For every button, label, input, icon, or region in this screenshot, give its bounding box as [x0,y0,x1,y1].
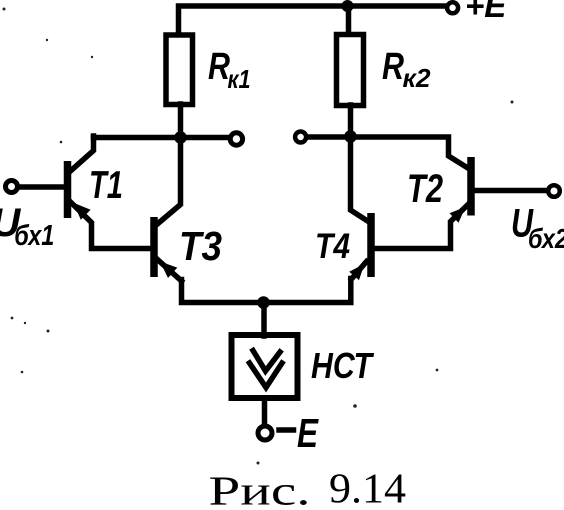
svg-text:Рис.: Рис. [209,468,311,510]
svg-text:+E: +E [465,0,507,24]
svg-text:бх2: бх2 [528,223,564,254]
svg-text:бх1: бх1 [14,220,54,252]
svg-text:T4: T4 [315,227,350,266]
svg-text:E: E [297,410,319,456]
svg-text:T2: T2 [407,167,443,211]
svg-text:R: R [382,46,404,88]
svg-text:T3: T3 [179,223,222,269]
svg-text:к2: к2 [403,63,432,93]
svg-text:НСТ: НСТ [311,345,375,386]
svg-text:9.14: 9.14 [329,467,406,510]
svg-text:к1: к1 [228,64,251,94]
svg-text:T1: T1 [89,164,123,207]
